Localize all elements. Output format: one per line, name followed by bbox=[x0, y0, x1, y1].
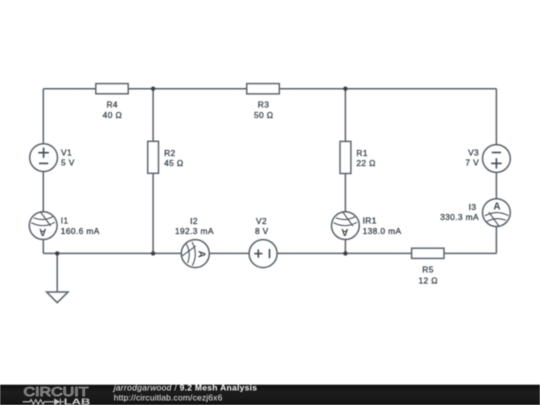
svg-text:V1: V1 bbox=[61, 148, 72, 158]
svg-text:R4: R4 bbox=[106, 100, 117, 110]
wire IR1 to bottom bbox=[344, 240, 346, 254]
svg-text:138.0 mA: 138.0 mA bbox=[363, 226, 402, 236]
wire branch2 R2 vertical bbox=[152, 89, 154, 254]
ammeter I3 bbox=[440, 199, 510, 227]
wire V3 to I3 bbox=[495, 172, 497, 198]
svg-text:330.3 mA: 330.3 mA bbox=[440, 212, 479, 222]
wire I2 to V2 bbox=[209, 252, 249, 254]
ammeter I1 bbox=[29, 212, 99, 240]
wire V1 to I1 bbox=[42, 172, 44, 212]
svg-text:A: A bbox=[341, 226, 348, 237]
wire bottom left horizontal bbox=[43, 252, 181, 254]
svg-text:12 Ω: 12 Ω bbox=[418, 275, 437, 285]
svg-text:22 Ω: 22 Ω bbox=[356, 158, 375, 168]
wire I3 to bottom bbox=[495, 226, 497, 253]
svg-text:V2: V2 bbox=[256, 216, 267, 226]
svg-text:http://circuitlab.com/cezj6x6: http://circuitlab.com/cezj6x6 bbox=[114, 392, 223, 402]
svg-text:R5: R5 bbox=[422, 265, 433, 275]
node junction top R1 bbox=[343, 87, 347, 91]
svg-text:7 V: 7 V bbox=[465, 157, 479, 167]
ammeter I2 bbox=[175, 216, 214, 268]
voltage source V1 bbox=[30, 144, 75, 172]
voltage source V3 bbox=[465, 145, 510, 173]
svg-text:192.3 mA: 192.3 mA bbox=[175, 226, 214, 236]
footer bar bbox=[0, 385, 540, 405]
node junction bottom R2 bbox=[151, 251, 155, 255]
svg-text:V3: V3 bbox=[468, 148, 479, 158]
ammeter IR1 bbox=[332, 212, 402, 240]
voltage source V2 bbox=[249, 216, 277, 268]
wire ground stem bbox=[56, 253, 58, 292]
svg-text:jarrodgarwood / 9.2 Mesh Analy: jarrodgarwood / 9.2 Mesh Analysis bbox=[113, 383, 258, 393]
resistor R4 bbox=[96, 84, 128, 121]
wire V2 to right bottom bbox=[277, 252, 496, 254]
svg-text:160.6 mA: 160.6 mA bbox=[61, 226, 100, 236]
wire I1 to bottom bbox=[42, 240, 44, 254]
svg-text:I1: I1 bbox=[61, 216, 69, 226]
svg-text:A: A bbox=[493, 201, 500, 212]
wire left branch vertical bbox=[42, 89, 44, 144]
resistor R3 bbox=[247, 84, 280, 121]
svg-text:A: A bbox=[39, 226, 46, 237]
node junction bottom IR1 bbox=[343, 251, 347, 255]
CircuitLab logo resistor zigzag and diode bbox=[23, 398, 64, 405]
svg-text:40 Ω: 40 Ω bbox=[103, 110, 122, 120]
svg-text:LAB: LAB bbox=[64, 398, 91, 405]
svg-text:A: A bbox=[196, 251, 207, 258]
svg-text:IR1: IR1 bbox=[363, 216, 377, 226]
resistor R1 bbox=[340, 141, 376, 173]
wire right branch V3 top bbox=[495, 89, 497, 145]
node junction ground bbox=[55, 251, 59, 255]
svg-text:I3: I3 bbox=[469, 202, 477, 212]
resistor R2 bbox=[148, 141, 184, 173]
node junction top R2 bbox=[151, 87, 155, 91]
resistor R5 bbox=[412, 248, 444, 285]
svg-text:R3: R3 bbox=[258, 100, 269, 110]
ground bbox=[47, 292, 68, 303]
svg-text:R1: R1 bbox=[356, 148, 367, 158]
wire branch3 R1 top bbox=[344, 89, 346, 212]
svg-text:R2: R2 bbox=[164, 148, 175, 158]
svg-text:8 V: 8 V bbox=[255, 226, 269, 236]
wire top horizontal bbox=[43, 88, 496, 90]
svg-text:45 Ω: 45 Ω bbox=[164, 158, 183, 168]
svg-text:50 Ω: 50 Ω bbox=[254, 110, 273, 120]
svg-text:5 V: 5 V bbox=[61, 157, 75, 167]
svg-text:I2: I2 bbox=[190, 216, 198, 226]
